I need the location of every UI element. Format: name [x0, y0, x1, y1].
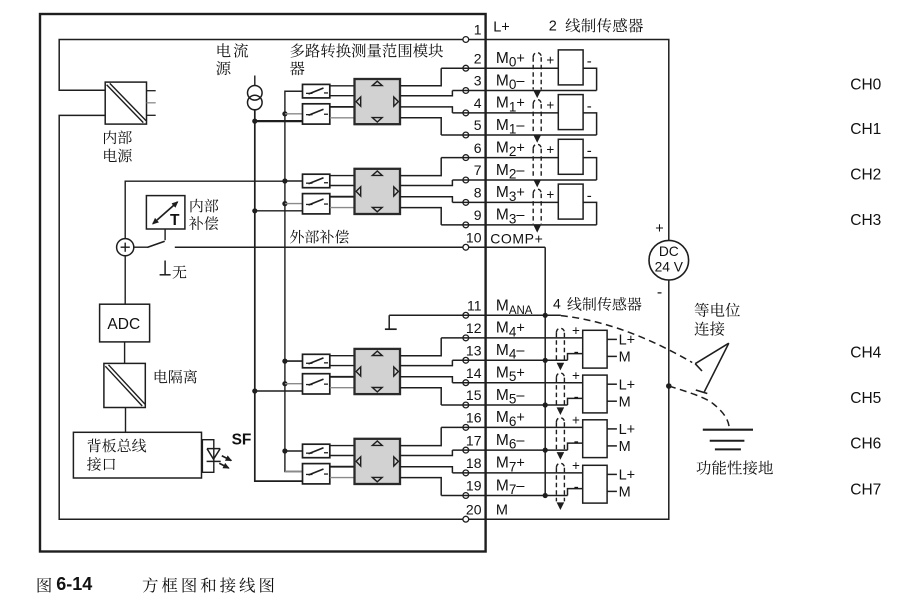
terminal 15 circle [463, 402, 469, 408]
junction: current source to CH2/3 range switch [252, 208, 257, 213]
wire: isolation to backplane bus interface [125, 408, 127, 433]
svg-text:M0+: M0+ [496, 50, 525, 70]
svg-text:CH4: CH4 [850, 345, 881, 362]
internal power supply 内部电源 (isolated DC/DC converter) [105, 82, 146, 124]
svg-text:4: 4 [474, 95, 482, 111]
terminal 9 circle [463, 222, 469, 228]
svg-text:M: M [619, 394, 631, 410]
svg-text:CH0: CH0 [850, 77, 881, 94]
wire: feed to CH5 range switch [285, 383, 303, 385]
junction: M5- junction [543, 402, 548, 407]
svg-text:8: 8 [474, 185, 482, 201]
measuring range selection dashed link CH2 [533, 144, 541, 149]
measuring range selection dashed link CH3 [533, 189, 541, 194]
wire: sensor B3 minus return to terminal 9 M3- [583, 202, 597, 225]
wire: terminal 15 M5- sensor minus return [441, 404, 567, 406]
svg-text:9: 9 [474, 207, 482, 223]
svg-text:M4+: M4+ [496, 320, 525, 340]
wire: terminal 13 M4- sensor minus return [452, 359, 567, 361]
summing point circle (+) [117, 239, 134, 256]
junction: switch feed bus to CH6 switch [282, 448, 287, 453]
svg-text:16: 16 [466, 410, 482, 426]
svg-text:M6+: M6+ [496, 409, 525, 429]
svg-text:+: + [572, 458, 580, 473]
wires: multiplexer U1 outputs to terminals 2-5 [400, 68, 441, 86]
wires: switch outputs to multiplexer U4 [330, 445, 355, 447]
svg-text:17: 17 [466, 432, 482, 448]
svg-text:SF: SF [232, 432, 252, 449]
svg-text:M7–: M7– [496, 477, 525, 497]
internal analog ground (⊥) off MANA [388, 315, 390, 329]
junction: M6- junction [543, 448, 548, 453]
svg-text:-: - [574, 388, 579, 405]
wire: terminal 19 M7- sensor minus return [441, 495, 567, 497]
wires: multiplexer U4 outputs to terminals 16-19 [400, 427, 441, 445]
junction: switch feed bus to CH2 switch [282, 178, 287, 183]
4-wire sensor B5 (CH5) [583, 375, 607, 413]
svg-text:M: M [496, 503, 508, 519]
junction: M4- junction [543, 358, 548, 363]
svg-text:T: T [170, 212, 180, 229]
terminal 1 circle [463, 37, 469, 43]
svg-text:15: 15 [466, 387, 482, 403]
svg-text:L+: L+ [493, 19, 510, 35]
junction: switch feed bus to CH5 switch [282, 381, 287, 386]
measuring range selection dashed link CH1 [533, 100, 541, 105]
2-wire sensor B3 (CH3) [558, 184, 583, 219]
range switch S7 (CH7) [303, 464, 330, 484]
measuring range selection dashed link CH0 [533, 53, 541, 58]
junction: M ANA junction [543, 313, 548, 318]
wire: terminal 17 M6- sensor minus return [452, 449, 567, 451]
svg-text:24 V: 24 V [655, 260, 684, 275]
svg-text:L+: L+ [619, 468, 636, 484]
junction: equipotential tap on DC24V minus line [666, 383, 672, 389]
wire: terminal 4 M1+ to sensor B1 plus [452, 112, 558, 114]
terminal 16 circle [463, 425, 469, 431]
functional earth symbol [703, 429, 753, 431]
range switch S1 (CH1) [303, 104, 330, 124]
wire: sensor B1 minus return to terminal 5 M1- [583, 113, 597, 135]
label 电流源 (current source) [218, 43, 249, 57]
svg-text:-: - [574, 433, 579, 450]
4-wire sensor B4 (CH4) [583, 330, 607, 368]
4-wire sensor B6 (CH6) [583, 420, 607, 458]
wire: terminal 18 M7+ to sensor B7 plus [452, 472, 582, 474]
range switch S5 (CH5) [303, 374, 330, 394]
svg-text:ADC: ADC [107, 316, 140, 333]
svg-text:13: 13 [466, 343, 482, 359]
label 电隔离 [155, 370, 197, 384]
current source symbol (two overlapping circles) [254, 76, 256, 87]
module outer frame (terminal block border) [40, 14, 486, 552]
wire: summing point to ADC [124, 256, 126, 304]
svg-text:CH7: CH7 [850, 482, 881, 499]
svg-text:M5–: M5– [496, 387, 525, 407]
multiplexer / measuring range block U4 (CH6/CH7) [355, 439, 401, 484]
svg-text:DC: DC [659, 244, 679, 259]
SF LED indicator [202, 440, 213, 473]
label 内部电源 [104, 130, 132, 144]
svg-text:3: 3 [474, 73, 482, 89]
svg-text:+: + [546, 97, 554, 112]
terminal 17 circle [463, 447, 469, 453]
terminal 7 circle [463, 177, 469, 183]
junction: switch feed bus to CH1 switch [282, 111, 287, 116]
wire: summing point to COMP+ terminal 10 (external compensation) [134, 246, 148, 248]
range switch S6 (CH6) [303, 444, 330, 458]
sensor B4 supply stub L+ [607, 338, 617, 340]
dashed link: MANA to equipotential arrow [561, 316, 692, 363]
multiplexer / measuring range block U1 (CH0/CH1) [355, 79, 401, 124]
DC 24V supply source [649, 240, 689, 280]
2-wire sensor B2 (CH2) [558, 139, 583, 174]
svg-text:M1+: M1+ [496, 95, 525, 115]
wires: multiplexer U3 outputs to terminals 12-15 [400, 338, 441, 356]
range switch S0 (CH0) [303, 84, 330, 98]
terminal 13 circle [463, 357, 469, 363]
svg-text:+: + [546, 53, 554, 68]
ADC block [100, 304, 150, 342]
wire: ADC to galvanic isolation [124, 342, 126, 364]
svg-text:M: M [619, 439, 631, 455]
terminal 2 circle [463, 65, 469, 71]
svg-text:M3–: M3– [496, 207, 525, 227]
4-wire sensor B7 (CH7) [583, 465, 607, 503]
wire: compensation feed up and over to CH2/3 switch [125, 181, 285, 238]
wires: switch outputs to multiplexer U2 [330, 175, 355, 177]
measuring range selection dashed link CH5 [556, 373, 564, 378]
svg-text:COMP+: COMP+ [490, 231, 543, 247]
svg-text:+: + [572, 323, 580, 338]
svg-text:M: M [619, 350, 631, 366]
svg-text:CH5: CH5 [850, 390, 881, 407]
measuring range selection dashed link CH7 [556, 463, 564, 468]
terminal 6 circle [463, 155, 469, 161]
terminal 12 circle [463, 335, 469, 341]
terminal 4 circle [463, 110, 469, 116]
wire: sensor B2 minus return to terminal 7 M2- [583, 158, 597, 180]
internal compensation box 内部补偿 (temperature sensor T) [146, 196, 185, 229]
svg-text:-: - [574, 344, 579, 361]
sensor B6 supply stub M [607, 445, 617, 447]
wire: feed to CH3 range switch [285, 203, 303, 205]
svg-text:M6–: M6– [496, 432, 525, 452]
terminal 20 circle [463, 516, 469, 522]
svg-text:4: 4 [553, 296, 561, 312]
terminal 18 circle [463, 470, 469, 476]
svg-text:L+: L+ [619, 377, 636, 393]
terminal 19 circle [463, 493, 469, 499]
backplane bus interface box 背板总线接口 [73, 432, 201, 478]
2-wire sensor B0 (CH0) [558, 50, 583, 85]
compensation selector switch lever [147, 241, 164, 247]
svg-text:L+: L+ [619, 422, 636, 438]
wire: terminal 6 M2+ to sensor B2 plus [441, 157, 558, 159]
svg-text:-: - [657, 284, 662, 301]
terminal 10 circle [463, 244, 469, 250]
sensor B5 supply stub L+ [607, 383, 617, 385]
svg-text:6-14: 6-14 [56, 574, 92, 594]
caption 图 6-14 方框图和接线图 [38, 578, 52, 593]
wire: current source bus down left of switch column [255, 110, 303, 481]
wire: feed to CH4 range switch [285, 360, 303, 362]
label 多路转换测量范围模块器 (multiplexer / measuring-range module) [290, 43, 443, 57]
range switch S3 (CH3) [303, 194, 330, 214]
svg-text:+: + [572, 413, 580, 428]
svg-text:19: 19 [466, 478, 482, 494]
2-wire sensor B1 (CH1) [558, 95, 583, 130]
wire: terminal 2 M0+ to sensor B0 plus [441, 67, 558, 69]
svg-text:6: 6 [474, 140, 482, 156]
svg-text:1: 1 [474, 22, 482, 38]
svg-text:2: 2 [549, 19, 557, 35]
wire: terminal 11 MANA with internal ground [389, 314, 561, 316]
svg-text:M: M [619, 485, 631, 501]
svg-text:M1–: M1– [496, 117, 525, 137]
svg-text:5: 5 [474, 117, 482, 133]
svg-text:7: 7 [474, 162, 482, 178]
multiplexer / measuring range block U2 (CH2/CH3) [355, 169, 401, 214]
multiplexer / measuring range block U3 (CH4/CH5) [355, 349, 401, 394]
terminal 5 circle [463, 132, 469, 138]
wire: feed to CH6 range switch [285, 450, 303, 452]
svg-text:M2+: M2+ [496, 139, 525, 159]
wire: terminal 14 M5+ to sensor B5 plus [452, 382, 582, 384]
sensor B7 supply stub L+ [607, 473, 617, 475]
wires: switch outputs to multiplexer U3 [330, 355, 355, 357]
wire: terminal 8 M3+ to sensor B3 plus [452, 201, 558, 203]
sensor B4 supply stub M [607, 355, 617, 357]
label 内部补偿 [190, 199, 218, 213]
svg-text:CH3: CH3 [850, 212, 881, 229]
wire: L+ feed from terminal 1 along frame top to internal power supply and DC24V + [59, 40, 669, 241]
svg-text:M3+: M3+ [496, 184, 525, 204]
equipotential bonding arrow symbol [695, 343, 729, 364]
wire: terminal 12 M4+ to sensor B4 plus [441, 337, 583, 339]
svg-text:L+: L+ [619, 333, 636, 349]
svg-text:CH2: CH2 [850, 166, 881, 183]
galvanic isolation block 电隔离 [104, 363, 145, 407]
svg-text:20: 20 [466, 501, 482, 517]
wire: feed to CH2 range switch [285, 180, 303, 182]
svg-text:MANA: MANA [496, 298, 533, 317]
wire: terminal 16 M6+ to sensor B6 plus [441, 426, 583, 428]
junction: current source to CH4/5 range switch [252, 388, 257, 393]
svg-text:2: 2 [474, 50, 482, 66]
range switch S4 (CH4) [303, 354, 330, 368]
alternate switch position: none (⊥ 无) [164, 261, 166, 275]
junction: switch feed bus to CH3 switch [282, 201, 287, 206]
LED light arrows [222, 456, 232, 461]
svg-text:10: 10 [466, 230, 482, 246]
wire: M return along frame bottom (terminal 20) to internal power supply and DC24V - [59, 115, 669, 519]
terminal 14 circle [463, 380, 469, 386]
junction: switch feed bus to CH4 switch [282, 359, 287, 364]
label 功能性接地 (functional earthing) [696, 460, 772, 474]
svg-text:M2–: M2– [496, 162, 525, 182]
junction: M7- junction [543, 493, 548, 498]
sensor B7 supply stub M [607, 490, 617, 492]
svg-text:M0–: M0– [496, 72, 525, 92]
svg-text:+: + [655, 221, 663, 237]
svg-text:+: + [546, 187, 554, 202]
wire: switch feed bus (vertical) [285, 91, 303, 471]
svg-text:M4–: M4– [496, 342, 525, 362]
wire: COMP+ down to MANA junction [544, 247, 546, 315]
svg-text:M5+: M5+ [496, 365, 525, 385]
label 外部补偿 (external compensation) [290, 230, 349, 244]
analog ground bus MANA down the 4-wire sensor column [544, 315, 546, 495]
svg-text:CH6: CH6 [850, 436, 881, 453]
wire: compensation selector stub from T box [164, 229, 166, 240]
svg-text:M7+: M7+ [496, 455, 525, 475]
terminal 8 circle [463, 200, 469, 206]
svg-text:14: 14 [466, 365, 482, 381]
svg-text:+: + [572, 368, 580, 383]
terminal 11 circle [463, 312, 469, 318]
svg-text:11: 11 [467, 298, 482, 314]
svg-text:-: - [574, 479, 579, 496]
measuring range selection dashed link CH4 [556, 328, 564, 333]
svg-text:12: 12 [466, 320, 482, 336]
internal power supply output stubs [147, 90, 156, 92]
sensor B5 supply stub M [607, 400, 617, 402]
svg-text:+: + [546, 142, 554, 157]
wire: feed to CH7 range switch [285, 471, 303, 473]
wires: multiplexer U2 outputs to terminals 6-9 [400, 158, 441, 176]
svg-text:18: 18 [466, 455, 482, 471]
junction: current source to CH0/1 range switch [252, 119, 257, 124]
wire: sensor B0 minus return to terminal 3 M0- [583, 68, 597, 90]
measuring range selection dashed link CH6 [556, 418, 564, 423]
terminal 3 circle [463, 88, 469, 94]
label 等电位连接 (equipotential bonding) [695, 303, 740, 317]
range switch S2 (CH2) [303, 174, 330, 188]
wire: feed to CH1 range switch [285, 113, 303, 115]
wires: switch outputs to multiplexer U1 [330, 85, 355, 87]
wire: feed to CH0 range switch [285, 90, 303, 92]
sensor B6 supply stub L+ [607, 428, 617, 430]
dashed link: DC24V minus to functional earth [669, 386, 730, 429]
svg-text:CH1: CH1 [850, 121, 881, 138]
